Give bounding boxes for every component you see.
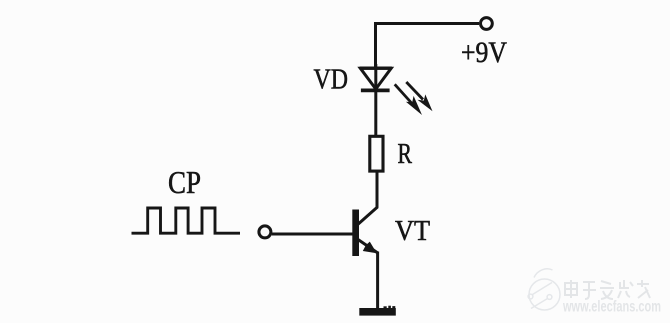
svg-text:+9V: +9V: [461, 37, 507, 69]
svg-text:CP: CP: [168, 164, 201, 200]
svg-text:VD: VD: [314, 63, 349, 95]
svg-text:R: R: [398, 139, 413, 170]
svg-text:www.elecfans.com: www.elecfans.com: [562, 299, 661, 316]
svg-text:VT: VT: [395, 216, 430, 247]
